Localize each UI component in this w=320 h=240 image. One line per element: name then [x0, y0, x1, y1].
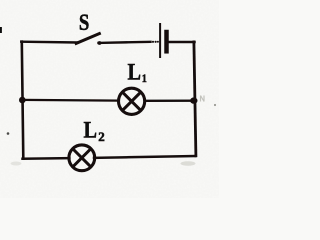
svg-text:S: S	[79, 9, 89, 36]
svg-text:1: 1	[142, 72, 147, 85]
svg-text:2: 2	[98, 129, 105, 144]
svg-text:L: L	[128, 59, 142, 84]
svg-text:L: L	[84, 118, 98, 143]
